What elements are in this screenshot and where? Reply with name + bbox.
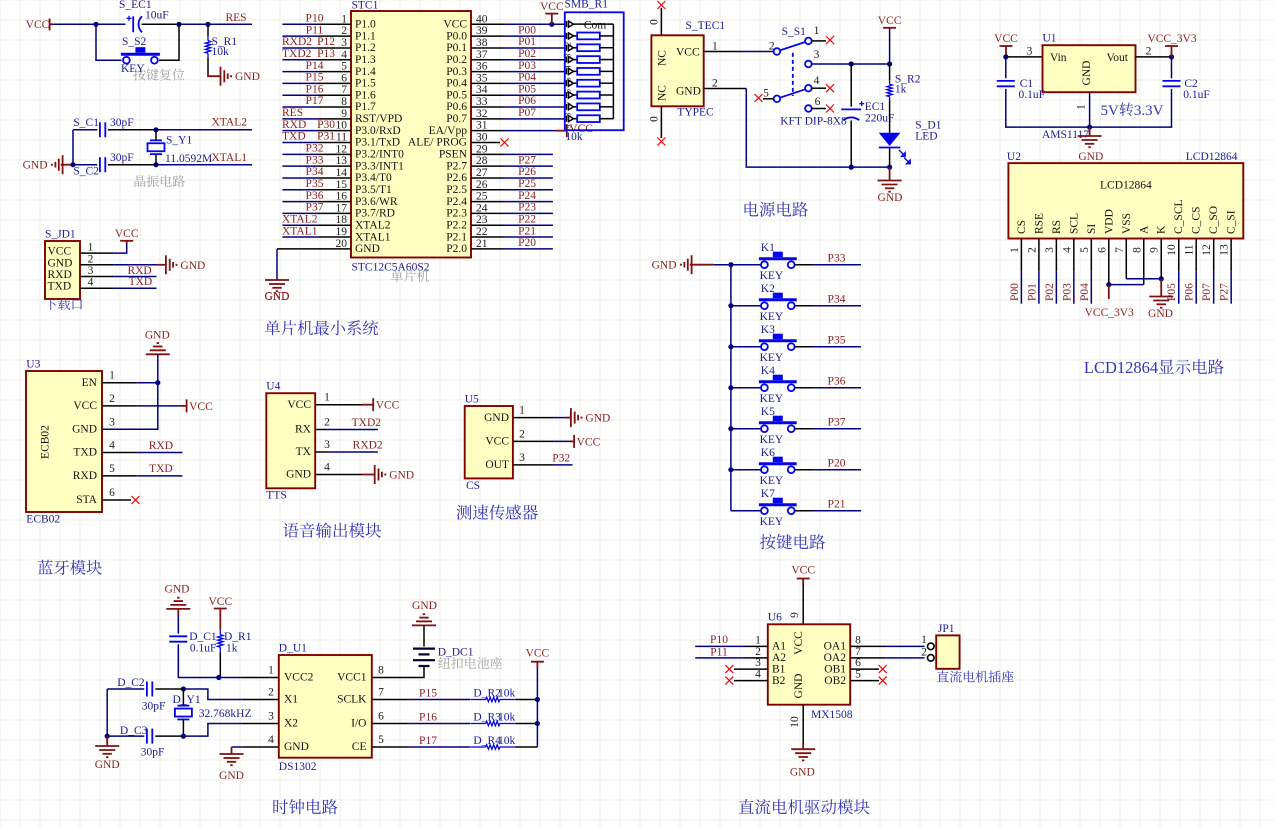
svg-text:13: 13 (336, 155, 348, 167)
svg-text:VCC: VCC (540, 1, 564, 13)
svg-text:P0.4: P0.4 (446, 78, 467, 90)
caption 直流电机插座 (937, 670, 1014, 682)
svg-text:GND: GND (1078, 151, 1103, 163)
svg-text:P02: P02 (1044, 283, 1056, 301)
svg-text:P2.4: P2.4 (446, 196, 467, 208)
resistor S_R2 1k (887, 64, 921, 100)
svg-text:D_C2: D_C2 (117, 677, 145, 689)
ground (U1) (1078, 136, 1104, 163)
node VCC rail top (887, 61, 892, 66)
svg-text:D_R4: D_R4 (473, 735, 501, 747)
STC1 pin 23 wire P22 (471, 213, 553, 225)
svg-text:LCD12864: LCD12864 (1084, 358, 1158, 377)
op-chip U STC1 body (351, 0, 471, 258)
caption 晶振电路 (134, 175, 184, 187)
node XTAL2 (153, 127, 158, 132)
STC1 pin names (355, 19, 468, 256)
svg-text:0: 0 (649, 19, 661, 25)
STC1 pin 15 wire/label (282, 178, 351, 190)
svg-text:TXD: TXD (129, 276, 153, 288)
svg-text:21: 21 (476, 238, 488, 250)
STC1 pin 26 wire P25 (471, 178, 553, 190)
power port VCC (U4) (373, 398, 399, 412)
STC1 pin 37 wire P02 (471, 48, 565, 60)
switch K3 KEY (759, 324, 797, 364)
power port VCC (U1 in) (994, 33, 1018, 57)
svg-text:10k: 10k (498, 735, 516, 747)
svg-text:GND: GND (878, 192, 903, 204)
svg-text:P2.5: P2.5 (446, 184, 467, 196)
svg-text:36: 36 (476, 61, 488, 73)
no-connect X top (657, 1, 665, 9)
U3 pin numbers (109, 370, 115, 499)
power port VCC (U6) (791, 565, 815, 586)
wire node C to resistor (207, 24, 209, 36)
wire S_C2 to node XTAL1 (108, 164, 156, 166)
svg-text:15: 15 (336, 179, 348, 191)
wire RES net (208, 12, 252, 24)
svg-text:P14: P14 (306, 60, 324, 72)
node/wire key K7 left (731, 510, 761, 512)
svg-text:6: 6 (341, 72, 347, 84)
svg-text:2: 2 (921, 647, 927, 659)
svg-text:33: 33 (476, 96, 488, 108)
svg-text:P36: P36 (828, 376, 846, 388)
S_JD1 pin number 1 (88, 242, 94, 254)
svg-text:U2: U2 (1007, 151, 1021, 163)
svg-text:KEY: KEY (121, 63, 145, 75)
svg-text:P11: P11 (306, 24, 324, 36)
svg-text:17: 17 (336, 202, 348, 214)
U3 VCC wire (102, 405, 186, 407)
svg-text:P03: P03 (518, 60, 536, 72)
svg-text:GND: GND (412, 600, 437, 612)
svg-text:P0.6: P0.6 (446, 101, 467, 113)
svg-text:RST/VPD: RST/VPD (355, 113, 402, 125)
no-connect X S_S1 pin1 (826, 36, 834, 44)
svg-text:DS1302: DS1302 (279, 761, 317, 773)
svg-text:6: 6 (1096, 247, 1108, 253)
wire K5 to P37 (795, 417, 861, 429)
svg-text:8: 8 (855, 634, 861, 646)
svg-text:GND: GND (180, 260, 205, 272)
svg-text:X1: X1 (284, 694, 298, 706)
wire K6 to P20 (795, 458, 861, 470)
svg-text:P37: P37 (828, 417, 846, 429)
wire S_S1 pin5 stub (763, 98, 774, 100)
STC1 pin 18 wire/label (282, 213, 351, 225)
svg-text:9: 9 (1149, 247, 1161, 253)
svg-text:35: 35 (476, 72, 488, 84)
svg-text:7: 7 (378, 687, 384, 699)
svg-text:GND: GND (23, 160, 48, 172)
svg-text:KEY: KEY (760, 516, 784, 528)
node EN/GND (155, 380, 160, 385)
svg-text:4: 4 (268, 734, 274, 746)
svg-text:P30: P30 (317, 119, 335, 131)
STC1 pin 5 wire/label (282, 60, 351, 72)
STC1 pin 34 wire P05 (471, 83, 565, 95)
svg-text:P01: P01 (1026, 283, 1038, 301)
svg-text:GND: GND (790, 767, 815, 779)
wire K4 to P36 (795, 376, 861, 388)
STC1 pin 14 wire/label (282, 166, 351, 178)
svg-text:ALE/ PROG: ALE/ PROG (408, 137, 467, 149)
wire U1 input cap (1005, 57, 1007, 78)
svg-text:VCC: VCC (526, 648, 550, 660)
svg-text:TXD: TXD (73, 447, 97, 459)
svg-text:P01: P01 (518, 36, 536, 48)
wire TYPEC pin2 gnd (704, 89, 890, 168)
STC1 pin 6 wire/label (282, 72, 351, 84)
ground (LCD) (1148, 297, 1173, 321)
svg-text:10: 10 (1166, 244, 1178, 256)
STC1 pin 28 wire P27 (471, 154, 553, 166)
no-connect X S_S1 pin5 (755, 94, 763, 102)
svg-text:VCC: VCC (26, 19, 50, 31)
svg-text:2: 2 (712, 78, 718, 90)
STC1 pin 25 wire P24 (471, 190, 553, 202)
STC1 pin 38 wire P01 (471, 36, 565, 48)
svg-text:JP1: JP1 (938, 623, 955, 635)
svg-text:26: 26 (476, 179, 488, 191)
capacitor S_EC1 10uF (119, 0, 169, 32)
svg-text:6: 6 (815, 96, 821, 108)
STC1 pin40 wire (471, 23, 565, 25)
svg-text:VCC: VCC (376, 400, 400, 412)
chip subtitle STC12C5A60S2 (352, 262, 430, 274)
svg-text:XTAL1: XTAL1 (282, 225, 318, 237)
svg-text:P31: P31 (317, 131, 335, 143)
svg-text:P0.1: P0.1 (446, 42, 467, 54)
capacitor D_C3 30pF (107, 725, 183, 759)
svg-text:11.0592M: 11.0592M (165, 153, 212, 165)
svg-text:6: 6 (109, 487, 115, 499)
svg-text:27: 27 (476, 167, 488, 179)
svg-text:U1: U1 (1043, 33, 1057, 45)
svg-text:1: 1 (109, 370, 115, 382)
svg-text:P3.0/RxD: P3.0/RxD (355, 125, 401, 137)
svg-text:RES: RES (225, 12, 246, 24)
svg-text:28: 28 (476, 155, 488, 167)
svg-text:3: 3 (755, 657, 761, 669)
svg-text:P33: P33 (828, 253, 846, 265)
U6 A1 wire P10 (695, 634, 768, 646)
capacitor C1 0.1uF (997, 78, 1045, 101)
svg-text:1: 1 (814, 25, 820, 37)
svg-text:EA/Vpp: EA/Vpp (429, 125, 468, 137)
DS1302 GND wire (232, 747, 279, 754)
svg-text:8: 8 (378, 665, 384, 677)
svg-text:D_C3: D_C3 (120, 725, 148, 737)
svg-text:P16: P16 (419, 712, 437, 724)
svg-text:TXD2: TXD2 (282, 48, 312, 60)
svg-text:P12: P12 (317, 36, 335, 48)
svg-text:S_JD1: S_JD1 (45, 229, 76, 241)
SMB_R1 resistors (574, 33, 614, 123)
svg-text:OUT: OUT (485, 459, 509, 471)
U6 OA1 wire (850, 634, 927, 646)
STC1 pin 2 wire/label (282, 24, 351, 36)
svg-text:X2: X2 (284, 718, 298, 730)
svg-text:2: 2 (268, 687, 274, 699)
SMB_R1 common bus (612, 24, 614, 119)
svg-text:P10: P10 (306, 13, 324, 25)
svg-text:P0.5: P0.5 (446, 89, 467, 101)
svg-text:P16: P16 (306, 83, 324, 95)
resistor network SMB_R1 body (565, 0, 624, 130)
svg-text:RS: RS (1051, 220, 1063, 234)
svg-text:TTS: TTS (266, 490, 286, 502)
svg-text:P1.2: P1.2 (355, 42, 376, 54)
U4 pin names (286, 399, 312, 481)
svg-text:0: 0 (649, 116, 661, 122)
svg-text:GND: GND (265, 291, 290, 303)
svg-text:30pF: 30pF (110, 152, 134, 164)
svg-text:LED: LED (915, 131, 937, 143)
STC1 pin 24 wire P23 (471, 202, 553, 214)
svg-text:P3.3/INT1: P3.3/INT1 (355, 160, 404, 172)
svg-text:VCC: VCC (676, 47, 700, 59)
svg-text:P35: P35 (828, 335, 846, 347)
svg-text:RXD2: RXD2 (353, 440, 383, 452)
svg-text:RXD: RXD (48, 269, 72, 281)
svg-text:12: 12 (1201, 244, 1213, 256)
wire C2 top (1171, 57, 1173, 78)
wire VCC to node (53, 23, 96, 25)
wire gnd to bus (714, 264, 731, 266)
wire left vertical (72, 130, 74, 165)
svg-text:4: 4 (324, 462, 330, 474)
svg-text:GND: GND (1148, 308, 1173, 320)
caption 按键复位 (133, 69, 184, 81)
svg-text:D_U1: D_U1 (279, 643, 307, 655)
svg-text:P15: P15 (419, 688, 437, 700)
STC1 pin 11 wire/label (282, 131, 351, 143)
svg-text:2: 2 (769, 41, 775, 53)
U5 OUT wire P32 (513, 453, 573, 465)
svg-text:GND: GND (48, 257, 73, 269)
svg-text:3: 3 (324, 439, 330, 451)
svg-text:P05: P05 (518, 83, 536, 95)
svg-text:P1.6: P1.6 (355, 89, 376, 101)
svg-text:D_R1: D_R1 (224, 631, 252, 643)
svg-text:37: 37 (476, 49, 488, 61)
STC1 pin 20 wire to ground (277, 249, 351, 280)
STC1 pin 16 wire/label (282, 190, 351, 202)
wire gnd to D_C1 (177, 609, 179, 634)
svg-text:STC1: STC1 (352, 0, 379, 12)
svg-text:VCC: VCC (791, 565, 815, 577)
wire X2 branch (183, 724, 278, 737)
LCD12864 pin 5 wire P04 (1079, 239, 1092, 304)
svg-text:P21: P21 (518, 225, 536, 237)
STC1 pin 7 wire/label (282, 83, 351, 95)
U6 B2 stub (734, 680, 768, 682)
STC1 pin 32 wire P07 (471, 107, 565, 119)
ground text (265, 291, 290, 303)
svg-text:24: 24 (476, 202, 488, 214)
svg-text:NC: NC (657, 85, 669, 101)
svg-text:C_CS: C_CS (1191, 207, 1203, 235)
wire EN node to GND pin (102, 383, 158, 430)
svg-text:P3.6/WR: P3.6/WR (355, 196, 398, 208)
svg-text:Com: Com (584, 20, 606, 32)
ground (U6) (790, 749, 815, 778)
STC1 pin 12 wire/label (282, 143, 351, 155)
power port VCC (U3) (187, 399, 213, 413)
U5 pin numbers (519, 405, 525, 464)
svg-text:P2.7: P2.7 (446, 160, 467, 172)
switch K4 KEY (759, 365, 797, 405)
node/wire key K1 left (728, 262, 761, 267)
S_JD1 pin name VCC (48, 246, 72, 258)
svg-text:P33: P33 (306, 154, 324, 166)
LCD12864 pin 10 wire P05 (1166, 239, 1179, 304)
svg-text:EN: EN (82, 377, 98, 389)
svg-text:10k: 10k (212, 46, 230, 58)
svg-text:GND: GND (793, 674, 805, 699)
svg-text:3: 3 (88, 265, 94, 277)
S_JD1 pin number 4 (88, 277, 94, 289)
ground (battery) (412, 600, 437, 625)
svg-text:4: 4 (109, 440, 115, 452)
svg-text:3: 3 (109, 416, 115, 428)
node XTAL1 (153, 162, 158, 167)
svg-text:P0.2: P0.2 (446, 54, 467, 66)
svg-text:6: 6 (378, 711, 384, 723)
ground (power circuit) (878, 181, 903, 204)
svg-text:GND: GND (484, 412, 509, 424)
svg-text:2: 2 (1146, 46, 1152, 58)
wire switch to node B (159, 24, 179, 60)
svg-text:VSS: VSS (1121, 213, 1133, 234)
U6 OA2 wire (850, 647, 927, 659)
wire node to chip pin1 (219, 677, 279, 679)
svg-text:P34: P34 (306, 166, 324, 178)
svg-text:P15: P15 (306, 72, 324, 84)
svg-text:22: 22 (476, 226, 488, 238)
svg-text:P17: P17 (419, 735, 437, 747)
wire gnd to battery (423, 625, 425, 646)
U3 RXD wire TXD (102, 463, 182, 476)
capacitor S_C2 30pF (73, 152, 133, 178)
wire resistor to ground (208, 58, 219, 76)
capacitor D_C1 0.1uF (169, 631, 217, 655)
SMB_R1 pin arrows (567, 21, 574, 122)
svg-text:GND: GND (235, 71, 260, 83)
svg-text:P17: P17 (306, 95, 324, 107)
STC1 pin 19 wire/label (282, 225, 351, 237)
svg-text:VCC: VCC (577, 436, 601, 448)
wire LED to bottom rail (889, 148, 891, 168)
svg-text:6: 6 (855, 657, 861, 669)
svg-text:GND: GND (219, 770, 244, 782)
svg-text:GND: GND (652, 260, 677, 272)
svg-text:0.1uF: 0.1uF (190, 643, 217, 655)
no-connect X B2 (725, 677, 733, 685)
wire C1 to gnd rail (1006, 89, 1090, 127)
U6 B1 stub (734, 668, 768, 670)
wire D_R1 to node (219, 652, 221, 677)
svg-text:ECB02: ECB02 (26, 514, 60, 526)
svg-text:I/O: I/O (351, 718, 366, 730)
no-connect X pin30 (501, 139, 509, 147)
svg-text:K2: K2 (761, 283, 775, 295)
wire X1 branch (183, 689, 278, 700)
svg-text:P3.1/TxD: P3.1/TxD (355, 137, 400, 149)
power port VCC (rail) (878, 15, 902, 64)
U6 OB1 stub (850, 668, 879, 670)
svg-text:A1: A1 (772, 641, 786, 653)
svg-text:S_Y1: S_Y1 (166, 135, 192, 147)
svg-text:S_TEC1: S_TEC1 (686, 20, 726, 32)
svg-text:KEY: KEY (760, 311, 784, 323)
svg-text:29: 29 (476, 143, 488, 155)
svg-text:TXD: TXD (149, 463, 173, 475)
svg-text:GND: GND (585, 413, 610, 425)
svg-text:U6: U6 (768, 612, 782, 624)
svg-text:P2.6: P2.6 (446, 172, 467, 184)
S_JD1 pin name GND (48, 257, 73, 269)
connector S_JD1 (45, 229, 80, 300)
svg-text:VCC: VCC (115, 228, 139, 240)
rtc D_U1 DS1302 body (279, 643, 372, 774)
caption 5V转3.3V (1101, 102, 1164, 119)
wire S_JD1 pin1 to VCC (80, 244, 127, 253)
svg-text:GND: GND (676, 86, 701, 98)
svg-text:5: 5 (563, 77, 573, 81)
svg-text:3.3V: 3.3V (1134, 103, 1164, 119)
svg-text:P07: P07 (1201, 283, 1213, 301)
wire to ground (106, 736, 108, 746)
svg-text:KFT DIP-8X8: KFT DIP-8X8 (780, 116, 847, 128)
STC1 pin 8 wire/label (282, 95, 351, 107)
svg-text:P32: P32 (552, 453, 570, 465)
ground (U5) (571, 408, 610, 427)
resistor D_R3 10k (470, 712, 515, 726)
STC1 pin29 PSEN wire (471, 153, 553, 155)
LCD12864 pin 4 wire P03 (1061, 239, 1074, 304)
display U2 LCD12864 body (1007, 151, 1243, 239)
svg-text:RXD: RXD (127, 265, 151, 277)
wire VCC to U1 Vin (1006, 56, 1043, 58)
capacitor EC1 220uF (841, 64, 894, 167)
STC1 pin numbers (336, 13, 488, 250)
wire VCC to U6 (789, 585, 803, 624)
svg-text:P20: P20 (828, 458, 846, 470)
DS1302 SCLK wire P15 (372, 688, 470, 700)
wire U1 gnd to ground (1089, 127, 1091, 136)
U3 pin names (72, 377, 98, 506)
sensor U5 CS body (465, 394, 513, 493)
power port VCC (D_R1) (208, 596, 232, 630)
wire battery to VCC1 (372, 666, 424, 678)
svg-text:P04: P04 (518, 72, 536, 84)
svg-text:32: 32 (476, 108, 488, 120)
LCD12864 pin 3 wire P02 (1044, 239, 1057, 304)
svg-text:D_C1: D_C1 (189, 631, 217, 643)
svg-text:3: 3 (814, 49, 820, 61)
svg-text:XTAL2: XTAL2 (282, 213, 318, 225)
resistor S_R1 10k (205, 36, 237, 58)
caption 测速传感器 (456, 505, 537, 520)
caption 单片机 (391, 270, 429, 282)
svg-text:GND: GND (72, 424, 97, 436)
wire left vertical to gnd (106, 689, 108, 736)
svg-text:SCLK: SCLK (337, 694, 367, 706)
svg-text:2: 2 (519, 428, 525, 440)
